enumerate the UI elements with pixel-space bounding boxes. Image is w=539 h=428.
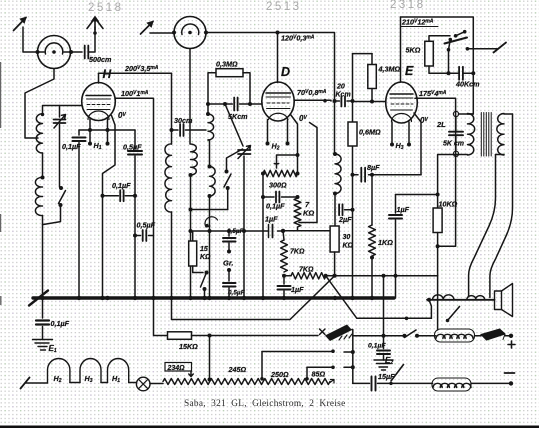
bus chassis slash — [29, 291, 48, 306]
capacitor 0.1uF cathode D — [276, 192, 279, 203]
junction dot trimmer-AF rail — [242, 229, 246, 233]
wire grid tube H to antenna coil — [43, 106, 83, 114]
coupler L1 outer circle — [38, 36, 71, 69]
svg-text:234Ω: 234Ω — [167, 365, 186, 372]
page left-edge marks — [0, 62, 2, 305]
bias rail left segment — [172, 276, 335, 320]
capacitor 30cm — [180, 124, 183, 136]
tube E anode plate — [390, 93, 413, 95]
wire 30K bottom stub — [334, 252, 336, 276]
wire 30cm cap right — [186, 129, 207, 131]
svg-text:KΩ: KΩ — [200, 254, 211, 261]
tap y367 zigzag dot — [305, 377, 309, 381]
band switch S1 contacts — [59, 186, 63, 190]
Gr terminal dots — [227, 250, 231, 254]
wire AF rail y231 — [193, 230, 283, 232]
wire coil node to 30K — [334, 210, 336, 226]
wire Gr drop from AF rail — [228, 231, 230, 236]
resistor 300 zigzag — [263, 170, 298, 176]
wire 120V col to coil — [334, 101, 336, 154]
wire E2 column upper — [383, 276, 385, 336]
capacitor 40Kcm — [459, 67, 463, 80]
heater lead in — [25, 382, 48, 384]
capacitor 20Kcm — [341, 97, 345, 107]
wire cap to E2 ground — [383, 356, 385, 361]
tube H heater pin dots H1 — [88, 142, 110, 146]
svg-text:10KΩ: 10KΩ — [439, 200, 458, 209]
transformer core — [481, 113, 491, 157]
junction dots coupler L1 — [36, 50, 74, 54]
svg-text:0,5µF: 0,5µF — [123, 143, 142, 152]
junction dots tube H pins — [88, 128, 110, 132]
speaker switch dot — [446, 319, 449, 322]
wire Lg2 top stub — [208, 140, 210, 167]
svg-text:245Ω: 245Ω — [228, 365, 247, 374]
mains switch contacts — [449, 38, 453, 42]
antenna A3 symbol — [141, 22, 154, 35]
wire coupler L2 to tube D grid line — [206, 33, 335, 102]
wire output rail y276 — [326, 275, 438, 277]
junction dot AF to 7K — [281, 229, 285, 233]
choke coil minus — [432, 378, 471, 391]
choke plus to fuse2 — [475, 335, 482, 337]
junction dots output rail — [324, 274, 398, 278]
wire 0.5uF to bus — [134, 156, 136, 298]
resistor 7K output zigzag — [291, 273, 326, 279]
tube E bottom pinch — [392, 114, 412, 122]
svg-text:8µF: 8µF — [367, 163, 380, 172]
tap rail y367 — [307, 366, 333, 368]
wire anode coil feed — [171, 73, 173, 144]
wire rheostat riser — [209, 336, 211, 379]
mains switch lever — [445, 38, 468, 44]
capacitor 15uF — [372, 377, 376, 391]
wire cap to E1 ground — [42, 327, 44, 340]
junction dot rheostat 210 — [208, 378, 212, 382]
wire 500cm to antenna A2 — [89, 27, 96, 52]
svg-text:15KΩ: 15KΩ — [179, 342, 198, 351]
tap rail y352 end dot — [331, 349, 335, 353]
tube H anode plate — [86, 95, 111, 97]
wire secondary top — [504, 113, 513, 115]
svg-text:0,1µF: 0,1µF — [112, 181, 131, 190]
wire 1uF bias to bus — [283, 291, 285, 298]
junction dot AF-7K2 — [281, 229, 285, 233]
heater link 2 — [101, 382, 108, 384]
svg-text:1KΩ: 1KΩ — [378, 238, 393, 247]
junction dot 0V-0.1uF — [101, 194, 105, 198]
wire primary bottom link — [438, 155, 468, 195]
speaker feed polyline B — [490, 114, 513, 298]
svg-text:0,1µF: 0,1µF — [368, 343, 386, 350]
wire 0.1uF D left — [263, 196, 274, 198]
junction dot 1K bottom — [370, 256, 374, 260]
svg-text:0,5µF: 0,5µF — [137, 221, 156, 230]
osc switch S2 lever — [224, 174, 231, 187]
minus sign — [505, 372, 515, 374]
wire A1 to coupler — [23, 27, 38, 52]
wire 1uF out to bus end — [395, 220, 397, 298]
wire transformer primary top — [459, 73, 473, 114]
svg-text:0,6MΩ: 0,6MΩ — [359, 128, 381, 137]
mains switch pivot link — [449, 40, 451, 50]
wire S2 bottom — [227, 188, 229, 210]
lamp to rheostat — [150, 383, 163, 385]
svg-text:5K cm: 5K cm — [443, 141, 464, 148]
bus junction dots — [40, 296, 374, 300]
wire 0.5uF AF right — [149, 235, 154, 237]
wire 1uF out rail — [396, 194, 438, 196]
junction dot coil Lo2 bottom — [189, 173, 193, 177]
junction dot E2 drop — [382, 334, 386, 338]
wire IF coil to 2uF node — [334, 194, 336, 210]
wire cathode node D — [277, 154, 298, 156]
svg-text:2513: 2513 — [266, 1, 302, 13]
junction dot coupling cap — [133, 194, 137, 198]
capacitor 0.5uF AF — [143, 230, 147, 241]
plus row switch dots — [403, 334, 407, 338]
wire HT divider top — [353, 53, 373, 55]
speaker rail drop — [429, 300, 431, 319]
wire Gr lower terminal — [228, 271, 230, 281]
heater link 1 — [70, 382, 80, 384]
tube H anode stem — [98, 73, 100, 83]
junction dot tube D anode — [276, 31, 280, 35]
wire 0.1uF grid coupling right — [125, 195, 135, 197]
svg-text:E: E — [405, 64, 414, 78]
wire S2 top to trimmer line — [227, 149, 243, 172]
wire 0.5uF AF drop — [135, 235, 141, 237]
dial lamp — [136, 377, 150, 391]
pickup curl dot — [205, 224, 208, 227]
aerial slash — [494, 43, 507, 53]
svg-text:250Ω: 250Ω — [270, 370, 289, 379]
wire E1 drop — [42, 298, 44, 318]
junction dot 0.1uF D — [261, 195, 265, 199]
wire fuse to minus column — [351, 330, 354, 384]
tube D anode stem — [277, 33, 279, 83]
minus row right — [378, 382, 512, 384]
svg-text:1µF: 1µF — [291, 285, 304, 294]
bias rail right segment — [326, 276, 407, 319]
wire 0V tube D cathode — [291, 115, 298, 156]
tube H bottom pinch — [88, 111, 109, 120]
junction dot 1uF out node — [436, 193, 440, 197]
pickup curl symbol — [205, 217, 217, 227]
coupler L2 side dots — [172, 31, 208, 35]
label 210V underline — [401, 26, 439, 28]
svg-text:0,3MΩ: 0,3MΩ — [216, 60, 238, 69]
trimmer capacitor antenna — [54, 120, 66, 124]
pot 300 wiper arrow — [274, 155, 278, 168]
wire 0.3M right leg — [243, 73, 250, 104]
IF coil Lm — [335, 154, 341, 194]
resistor 15K bias — [168, 332, 192, 340]
wire 7K out left — [284, 275, 291, 277]
resistor 4.3M top lead — [371, 54, 373, 65]
wire grid coil top stub — [207, 104, 209, 114]
coupler L1 inner arc — [45, 43, 63, 54]
tube H grid structure — [87, 99, 111, 110]
junction dot rheostat 262 — [260, 377, 264, 381]
capacitor 5Kcm — [234, 98, 237, 111]
fuse2 outline tail — [500, 329, 506, 340]
wire 8uF left — [353, 174, 359, 176]
junction dot rheostat feed — [208, 334, 212, 338]
junction dot 7K lower bottom — [282, 274, 286, 278]
wire 300 right leg — [297, 155, 299, 174]
wire 30cm cap left — [172, 129, 179, 131]
tube E heater dots H3 — [390, 143, 411, 147]
junction dot Gr top — [227, 229, 231, 233]
wire Lg2 bottom to node — [209, 196, 211, 210]
wire tone cap leads — [455, 117, 457, 152]
trimmer capacitor osc — [238, 150, 251, 154]
junction dot switch leg — [447, 71, 451, 75]
ground bus — [33, 296, 394, 299]
wire 300 left leg to bus — [262, 174, 264, 299]
terminal circle bottom — [453, 151, 458, 156]
tube E heater pins — [392, 122, 409, 144]
band switch S1 lever — [59, 191, 66, 204]
fuse hatch marks — [339, 334, 352, 340]
switch S3 lever — [201, 273, 207, 288]
wire aerial out — [467, 48, 497, 50]
wiper 234 arrow — [189, 371, 193, 377]
capacitor 1uF bias — [278, 286, 291, 290]
wire grid rail to trimmer — [225, 104, 243, 146]
antenna coil La2 — [35, 177, 42, 215]
svg-text:7KΩ: 7KΩ — [299, 267, 314, 274]
wire switch leg down — [448, 50, 450, 74]
capacitor 0.1uF E2 — [377, 351, 390, 355]
wire x210 to bus — [209, 210, 211, 299]
resistor 0.6M — [348, 122, 357, 146]
svg-text:0,1µF: 0,1µF — [266, 202, 285, 211]
speaker rail — [427, 299, 495, 301]
wire 0V tube E cathode — [414, 113, 421, 175]
rheostat zigzag — [163, 379, 330, 385]
resistor 4.3M bottom lead — [371, 89, 373, 102]
rheostat end arrow — [330, 380, 334, 384]
svg-text:0,5µF: 0,5µF — [228, 290, 246, 297]
coupler L2 inner arc — [182, 24, 199, 35]
minus terminal dot — [509, 381, 513, 385]
tube H screen lead — [114, 98, 116, 101]
wire 0.1uF to bus — [78, 143, 80, 299]
svg-text:0,5µF: 0,5µF — [227, 228, 245, 235]
junction dot cathode D — [296, 153, 300, 157]
wire coil Lo1 to bus — [171, 212, 173, 298]
capacitor 5Kcm tone — [449, 132, 463, 136]
wire secondary bottom stub — [496, 154, 505, 156]
svg-text:1µF: 1µF — [265, 215, 278, 224]
wire 1K stub — [371, 175, 373, 225]
tube D heater pins — [268, 120, 288, 144]
trimmer stub from grid wire — [59, 106, 61, 118]
svg-text:Saba, 321 GL, Gleichstrom,: Saba, 321 GL, Gleichstrom, 2 Kreise — [184, 399, 346, 409]
coupler L2 outer circle — [174, 17, 206, 49]
resistor 7K lower zigzag — [281, 240, 288, 272]
wire E2 drop — [383, 336, 385, 349]
ground symbol E2 — [374, 360, 393, 370]
svg-text:300Ω: 300Ω — [269, 181, 287, 190]
wire 0V tube H — [103, 116, 116, 299]
wire 175V callout — [417, 98, 455, 246]
plus row switch lever — [405, 330, 417, 338]
wire coil La1 to coil La2 — [42, 153, 44, 178]
resistor 5K — [425, 41, 434, 66]
rail to speaker drop — [407, 317, 432, 319]
wire tube D grid rail — [208, 103, 262, 105]
speaker feed polyline A — [469, 155, 496, 297]
capacitor 1uF AF series right — [272, 225, 274, 238]
svg-text:7KΩ: 7KΩ — [290, 249, 305, 256]
loudspeaker — [495, 284, 513, 317]
pot 300 end dots — [261, 172, 300, 176]
wire cathode cap drop — [78, 130, 80, 135]
wire 7K upper to AF rail — [297, 227, 299, 231]
wire 210V box — [401, 17, 474, 73]
capacitor 0.1uF coupling — [120, 190, 123, 201]
junction dot 40Kcm right — [471, 71, 475, 75]
osc switch S2 contacts — [225, 170, 229, 174]
junction dot antenna coil top — [41, 113, 44, 116]
plus terminal lead — [505, 335, 511, 337]
wire output rail to choke column — [437, 276, 439, 330]
tap rail y352 drop — [261, 352, 263, 379]
svg-text:2518: 2518 — [88, 2, 124, 14]
tap rail y367 stub — [344, 366, 353, 368]
terminal circle top — [453, 111, 458, 116]
wire primary top link — [468, 113, 474, 115]
junction dot grid coil top — [206, 112, 210, 116]
speaker switch lever — [448, 307, 460, 321]
capacitor 1uF AF series left — [268, 225, 270, 238]
capacitor 1uF out — [389, 215, 402, 219]
junction dot 7K top — [296, 195, 300, 199]
svg-text:D: D — [281, 65, 290, 79]
tube E screen lead — [415, 97, 417, 99]
svg-text:30: 30 — [343, 234, 351, 241]
resistor 4.3M — [368, 65, 377, 89]
wire cathode tube H — [90, 119, 108, 144]
heater slash — [21, 378, 30, 389]
capacitor 2uF — [339, 204, 342, 215]
heater bump H1 — [108, 359, 129, 383]
wire 0.3M left leg — [208, 73, 216, 104]
wire A3 to coupler L2 — [150, 32, 174, 34]
capacitor 0.5uF Gr upper — [223, 238, 236, 242]
capacitor 0.1uF cathode — [73, 138, 86, 142]
resistor 15K AF — [189, 241, 197, 266]
label box 234 — [165, 363, 192, 373]
wire 1K to bus — [371, 258, 373, 299]
wire 0.1uF D right — [282, 196, 298, 198]
wire 15K to fuse — [192, 335, 319, 337]
wire 20Kcm right — [347, 100, 353, 102]
junction dots osc node — [189, 208, 193, 212]
antenna A1 symbol — [14, 18, 27, 31]
svg-text:40Kcm: 40Kcm — [455, 80, 480, 89]
mains switch upper link — [456, 32, 465, 36]
wire coil La2 to bus — [42, 216, 44, 299]
junction dot Lg2 bottom — [208, 194, 212, 198]
resistor 0.3M — [216, 69, 243, 77]
coupler L2 center dot — [188, 31, 192, 35]
svg-text:4,3MΩ: 4,3MΩ — [378, 65, 401, 74]
plus terminal dot — [509, 334, 513, 338]
svg-text:2µF: 2µF — [338, 215, 352, 224]
capacitor 0.1uF E1 — [36, 321, 49, 325]
grid coil Lg2 — [210, 167, 216, 197]
junction dot 2uF-x352 — [351, 208, 355, 212]
capacitor 8uF — [361, 168, 365, 182]
capacitor 0.5uF Gr lower — [223, 283, 236, 287]
tube E anode stem — [400, 17, 402, 82]
antenna A2 symbol — [87, 18, 103, 30]
svg-text:Kcm: Kcm — [336, 92, 351, 99]
wire 200V callout / anode feed — [99, 72, 172, 74]
junction dot rail-406 — [405, 317, 409, 321]
junction dot 10K bottom — [436, 244, 440, 248]
tube D grid structure — [266, 97, 291, 109]
wire 10K node down to output rail — [437, 246, 439, 276]
junction dot x210 AF rail — [208, 229, 212, 233]
wire 0.1uF grid coupling left — [103, 195, 119, 197]
transformer secondary winding — [497, 114, 504, 156]
ground symbol E1 — [33, 340, 53, 351]
wire 70V callout — [294, 99, 331, 102]
speaker line coil 2 — [467, 296, 485, 300]
junction dot speaker rail left — [427, 298, 431, 302]
heater bump H2 — [48, 359, 70, 383]
svg-text:5KΩ: 5KΩ — [406, 46, 421, 55]
junction dot 8uF node — [351, 173, 355, 177]
capacitor 500cm — [85, 46, 89, 59]
tube D heater dots H2 — [266, 142, 290, 146]
switch S3 contacts — [205, 271, 209, 275]
junction dot 120V col — [333, 99, 337, 103]
resistor 10K bottom lead — [437, 233, 439, 247]
plus row left — [353, 335, 405, 337]
svg-text:0,1µF: 0,1µF — [51, 319, 70, 328]
junction dots minus column — [351, 350, 355, 354]
tube D screen lead — [293, 100, 295, 101]
wire 2uF right — [345, 209, 353, 211]
wire cathode rail tube H — [79, 129, 135, 131]
svg-text:85Ω: 85Ω — [312, 370, 326, 379]
wire 1uF bias drop — [283, 276, 285, 284]
minus row left — [353, 382, 370, 384]
0V callout line tube D — [299, 123, 317, 223]
oscillator coil Lo2 — [191, 144, 198, 175]
wire screen cap drop — [134, 130, 136, 149]
svg-text:KΩ: KΩ — [303, 209, 314, 218]
svg-text:15µF: 15µF — [378, 372, 395, 381]
svg-text:2318: 2318 — [390, 0, 426, 11]
wire 8uF right — [369, 174, 422, 176]
trimmer osc arrow — [238, 146, 251, 159]
svg-text:Gr.: Gr. — [223, 259, 233, 268]
tap rail y352 — [262, 351, 333, 353]
svg-text:2L: 2L — [436, 120, 446, 129]
resistor 5K bottom lead — [429, 66, 459, 73]
wire 100V callout / screen feed — [115, 98, 153, 298]
junction dots IF coil — [333, 152, 337, 156]
resistor 10K top lead — [437, 195, 439, 209]
junction dot coil tap — [41, 176, 45, 180]
